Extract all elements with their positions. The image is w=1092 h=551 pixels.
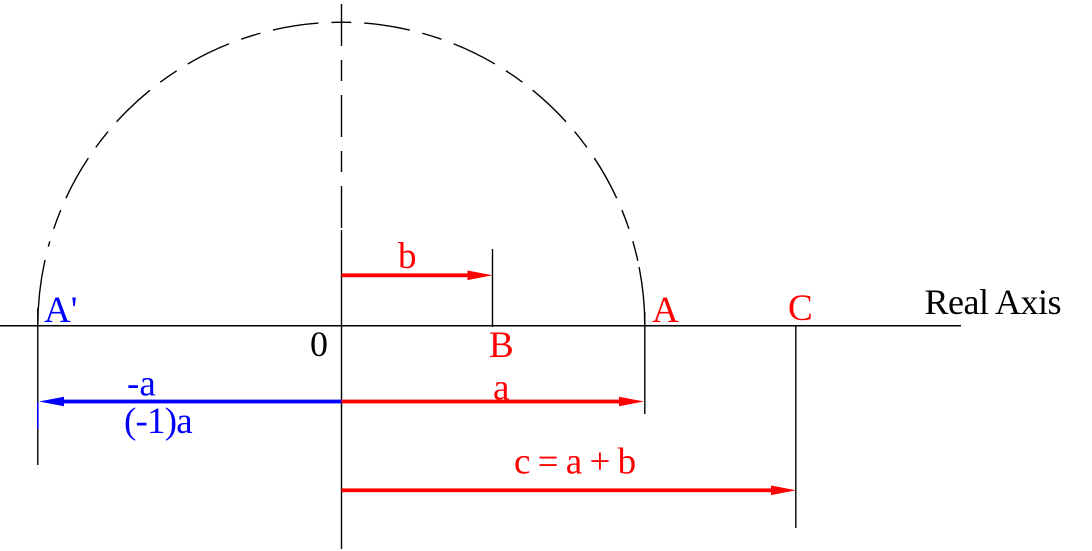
imaginary axis solid lower: [341, 230, 343, 549]
svg-text:A': A': [44, 290, 77, 331]
tick at C: [795, 326, 797, 528]
svg-text:a: a: [493, 368, 509, 409]
vector c arrow (red): [342, 486, 797, 496]
imaginary axis centerline dashed upper: [341, 4, 343, 230]
vector b arrow (red): [342, 271, 493, 281]
svg-text:-a: -a: [127, 364, 156, 405]
vector -a arrow (blue): [39, 397, 342, 407]
svg-text:A: A: [652, 290, 679, 331]
tick at A: [644, 312, 646, 414]
svg-text:(-1)a: (-1)a: [124, 401, 192, 442]
blue segment on A' tick: [37, 402, 39, 429]
unit semicircle (dashed): [48, 22, 638, 261]
solid arc end near A: [639, 267, 645, 326]
svg-text:c = a + b: c = a + b: [514, 442, 636, 483]
vector a arrow (red): [342, 397, 645, 407]
tick at B: [492, 249, 494, 327]
svg-text:C: C: [788, 288, 813, 329]
svg-text:0: 0: [310, 324, 328, 364]
real axis line: [0, 325, 961, 327]
svg-text:B: B: [489, 325, 514, 366]
svg-text:Real Axis: Real Axis: [925, 282, 1062, 322]
solid arc end near A': [38, 260, 45, 326]
svg-text:b: b: [398, 236, 417, 277]
tick at A': [37, 308, 39, 465]
